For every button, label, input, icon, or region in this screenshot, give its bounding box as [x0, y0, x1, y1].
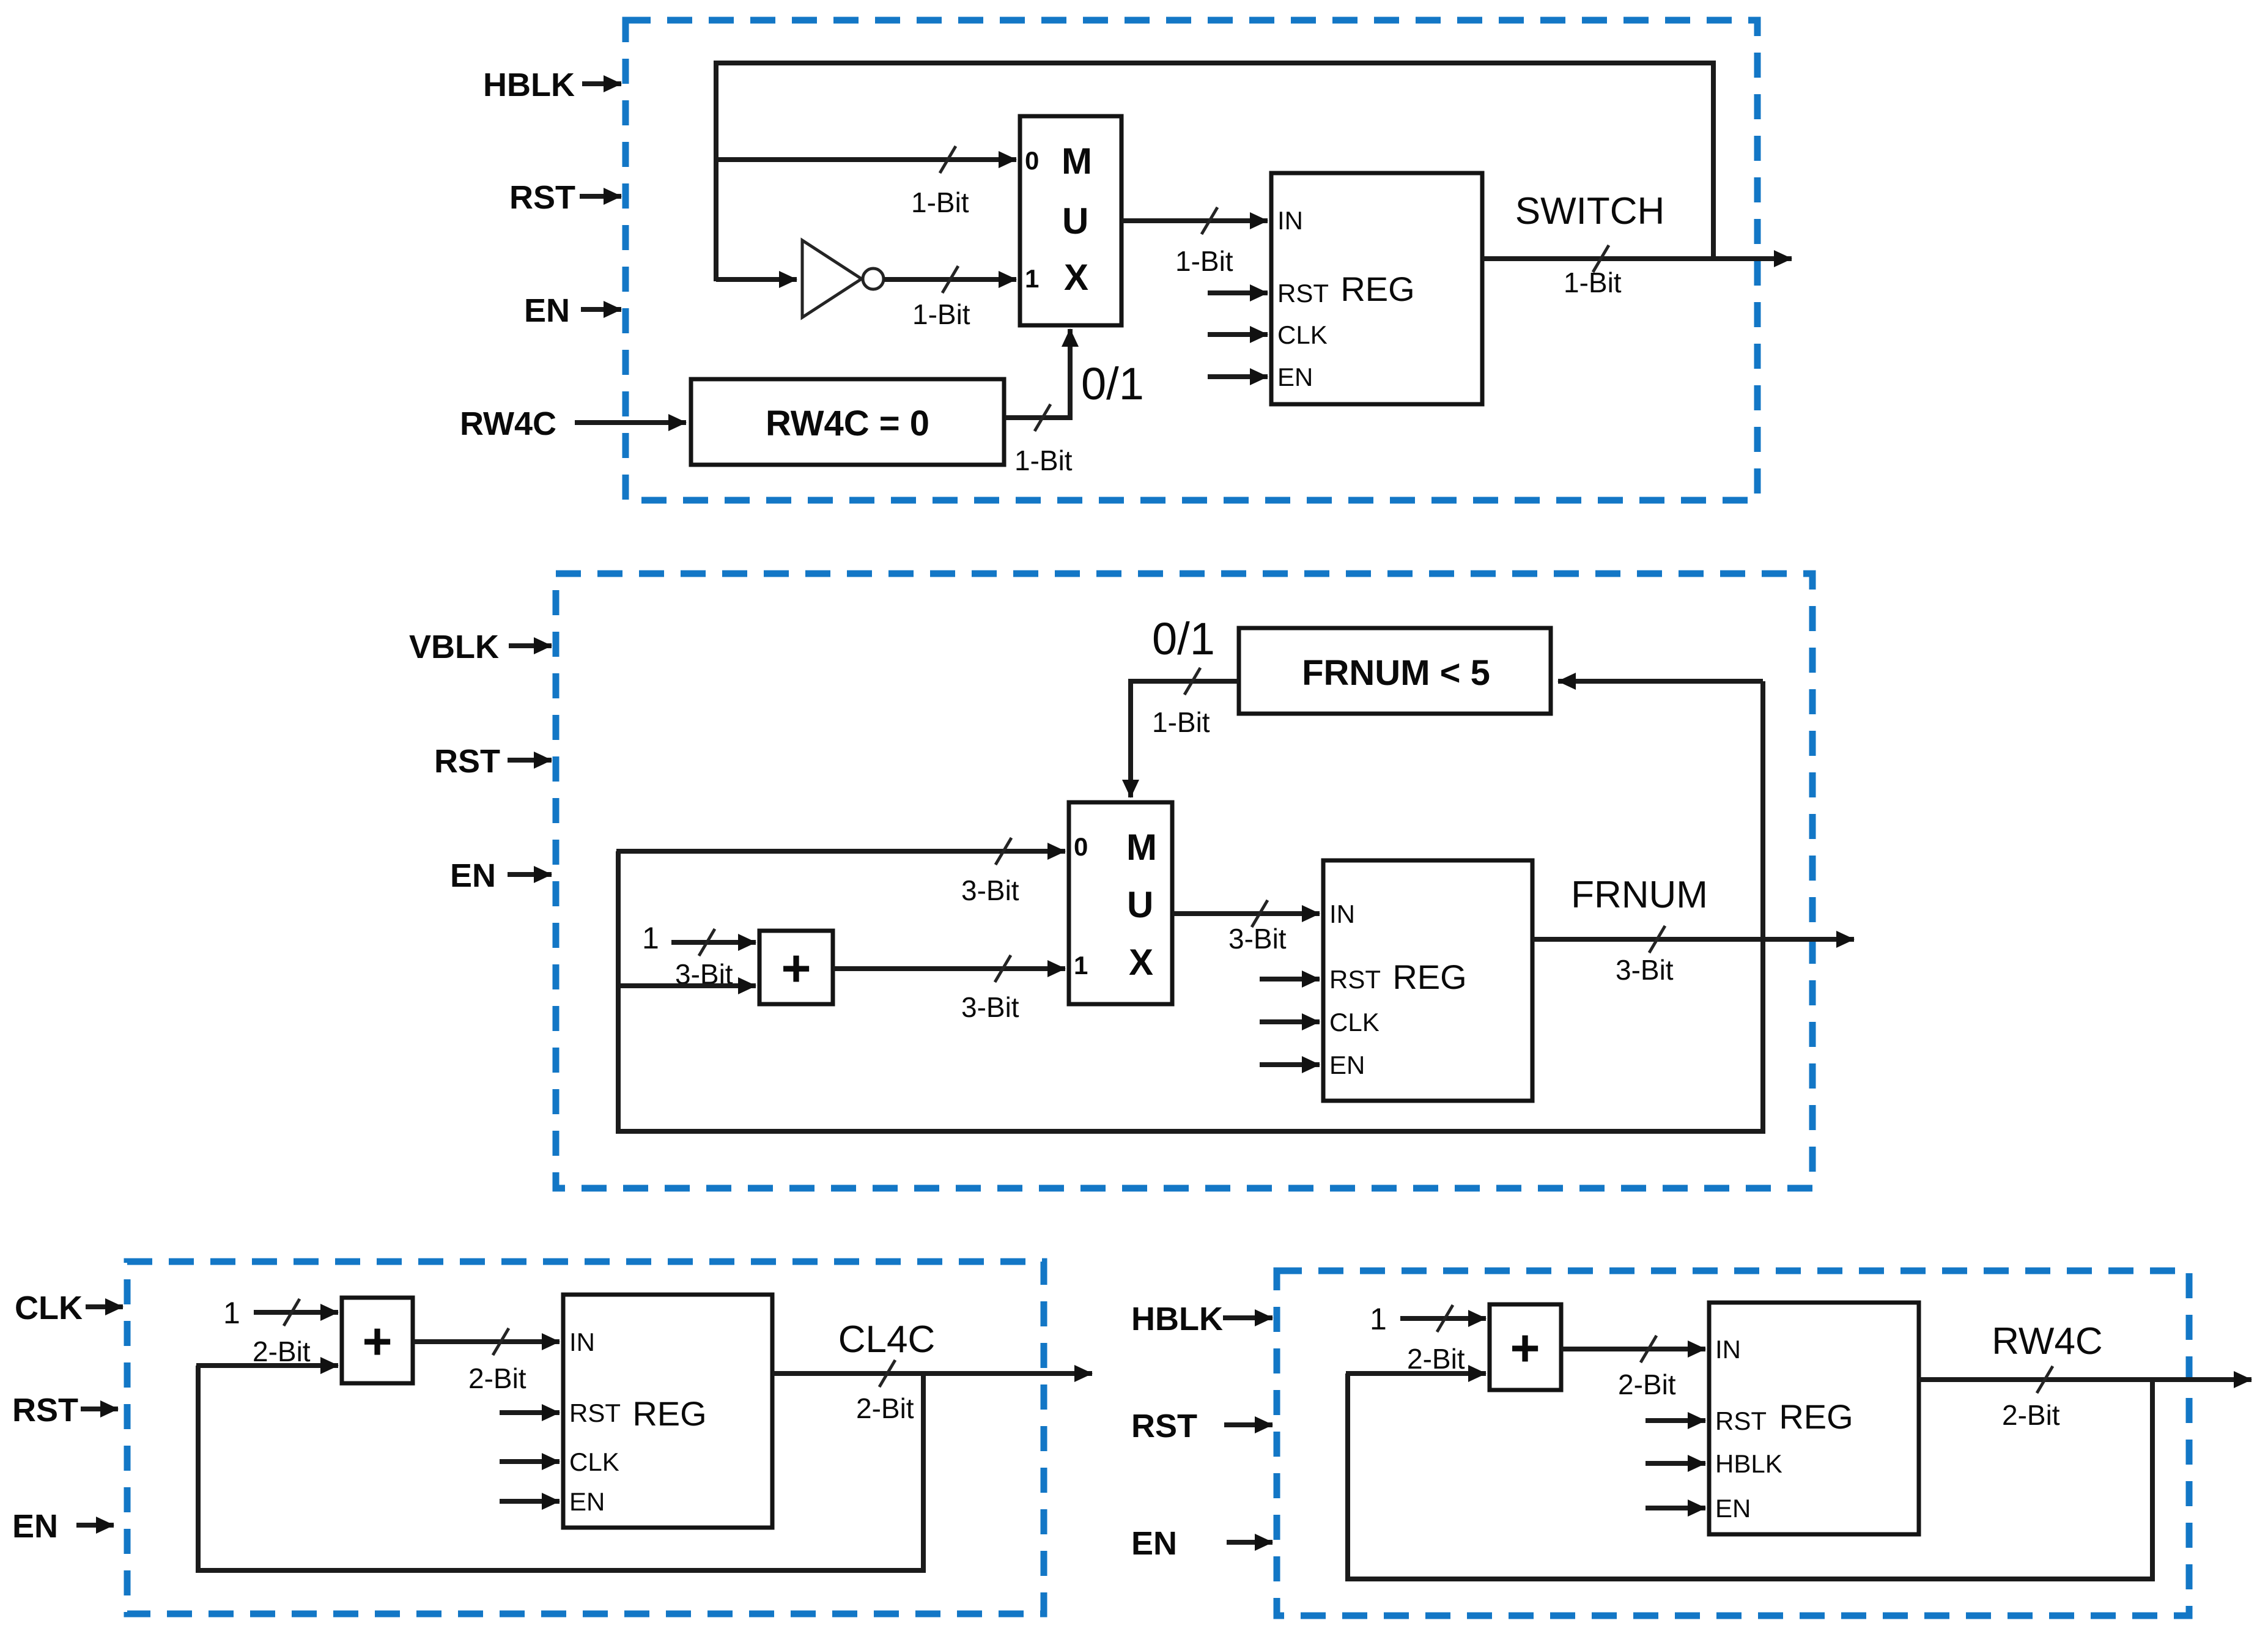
- wire RST input arrow: [580, 194, 621, 199]
- svg-text:3-Bit: 3-Bit: [961, 874, 1019, 906]
- svg-text:1-Bit: 1-Bit: [1564, 267, 1622, 298]
- bus width label 2-Bit: [856, 1392, 914, 1424]
- svg-text:0/1: 0/1: [1152, 613, 1215, 664]
- wire inverter to MUX input 1: [884, 277, 1016, 282]
- svg-text:RST: RST: [434, 743, 500, 780]
- bus width label 1-Bit: [1564, 267, 1622, 298]
- svg-text:M: M: [1062, 141, 1092, 182]
- wire FRNUM feedback into comparator (right side): [1558, 679, 1763, 684]
- svg-text:SWITCH: SWITCH: [1515, 190, 1665, 232]
- svg-text:1-Bit: 1-Bit: [1152, 706, 1210, 738]
- svg-text:FRNUM: FRNUM: [1571, 874, 1708, 916]
- svg-text:RST: RST: [12, 1392, 78, 1429]
- inverter NOT gate: [802, 240, 884, 317]
- svg-text:FRNUM < 5: FRNUM < 5: [1302, 653, 1490, 693]
- wire HBLK feedback loop (up over to output junction): [716, 63, 1713, 281]
- svg-text:IN: IN: [569, 1328, 595, 1356]
- svg-text:+: +: [781, 939, 811, 997]
- wire into inverter: [716, 277, 797, 282]
- svg-text:CLK: CLK: [569, 1447, 619, 1476]
- wire MUX output to REG IN: [1172, 911, 1320, 916]
- pin arrow EN: [500, 1499, 560, 1504]
- bus width label 1-Bit: [911, 187, 969, 218]
- output wire RW4C: [1919, 1377, 2251, 1382]
- svg-text:2-Bit: 2-Bit: [253, 1336, 311, 1367]
- svg-text:1: 1: [223, 1296, 240, 1330]
- constant 1 label: [642, 921, 659, 955]
- wire constant 1 into adder: [254, 1310, 338, 1315]
- svg-text:3-Bit: 3-Bit: [961, 991, 1019, 1023]
- pin arrow HBLK: [1646, 1461, 1705, 1466]
- register REG (bottom left): [563, 1295, 772, 1528]
- wire EN input arrow: [508, 872, 552, 877]
- pin arrow CLK: [500, 1459, 560, 1464]
- svg-text:HBLK: HBLK: [483, 67, 575, 103]
- wire MUX output to REG IN: [1121, 218, 1268, 223]
- wire comparator output down into MUX select: [1131, 681, 1239, 797]
- constant 1 label: [223, 1296, 240, 1330]
- bus slash 3-bit (mux in 1): [995, 955, 1011, 982]
- bus slash 2-bit (rw4c out): [2037, 1366, 2053, 1393]
- wire feedback into adder input B: [1346, 1371, 1486, 1376]
- adder: [759, 931, 833, 1004]
- pin arrow CLK: [1208, 332, 1268, 337]
- feedback loop wire (RW4C back to adder): [1348, 1373, 2152, 1579]
- bus width label 3-Bit: [1616, 954, 1674, 986]
- wire CLK input arrow: [86, 1304, 123, 1309]
- bus slash 2-bit (adder in A): [1437, 1305, 1453, 1332]
- bus width label 3-Bit: [961, 874, 1019, 906]
- bus width label 2-Bit: [2002, 1399, 2060, 1431]
- wire feedback into adder input B: [196, 1363, 338, 1368]
- wire EN input arrow: [1227, 1540, 1273, 1545]
- wire adder to REG IN: [1561, 1347, 1705, 1351]
- wire RST input arrow: [81, 1407, 118, 1411]
- wire HBLK input arrow: [582, 81, 621, 86]
- output label CL4C: [838, 1318, 936, 1361]
- svg-text:RW4C = 0: RW4C = 0: [766, 404, 929, 443]
- wire feedback to MUX input 0: [616, 849, 1065, 854]
- pin arrow RST: [1208, 290, 1268, 295]
- wire adder to MUX input 1: [833, 966, 1065, 971]
- svg-text:1-Bit: 1-Bit: [1175, 245, 1233, 277]
- input label EN: [450, 857, 496, 894]
- bus slash 1-bit (mux in 1): [942, 266, 958, 293]
- wire constant 1 into adder: [671, 940, 756, 945]
- bus slash 1-bit (select): [1035, 404, 1051, 431]
- input label EN: [12, 1508, 58, 1545]
- bus slash 2-bit (reg in): [493, 1328, 509, 1355]
- svg-text:X: X: [1129, 942, 1153, 983]
- bus width label 1-Bit: [1014, 445, 1073, 476]
- svg-text:0: 0: [1074, 832, 1088, 861]
- svg-text:EN: EN: [12, 1508, 58, 1545]
- register REG (bottom right): [1709, 1303, 1919, 1534]
- bus slash 1-bit (switch out): [1593, 245, 1609, 272]
- svg-text:X: X: [1064, 257, 1088, 298]
- svg-text:HBLK: HBLK: [1715, 1449, 1782, 1478]
- output label FRNUM: [1571, 874, 1708, 916]
- svg-text:2-Bit: 2-Bit: [856, 1392, 914, 1424]
- wire HBLK to MUX input 0: [714, 157, 1016, 162]
- bus width label 2-Bit: [1618, 1369, 1676, 1400]
- wire HBLK input arrow: [1223, 1315, 1273, 1320]
- bus slash 1-bit (reg in): [1202, 207, 1217, 234]
- bus slash 1-bit (mux in 0): [940, 146, 956, 173]
- svg-text:EN: EN: [450, 857, 496, 894]
- svg-text:3-Bit: 3-Bit: [1228, 923, 1287, 955]
- wire comparator to MUX select: [1005, 329, 1070, 418]
- svg-text:1: 1: [1370, 1302, 1387, 1336]
- bus width label 1-Bit: [912, 298, 970, 330]
- select value label 0/1: [1081, 358, 1144, 409]
- wire adder to REG IN: [413, 1339, 560, 1344]
- svg-text:RST: RST: [569, 1399, 621, 1427]
- bus slash 3-bit (mux in 0): [995, 838, 1011, 865]
- svg-text:EN: EN: [1131, 1525, 1177, 1562]
- dashed module boundary (FRNUM block): [556, 574, 1812, 1188]
- svg-text:EN: EN: [1329, 1051, 1365, 1079]
- svg-text:VBLK: VBLK: [409, 629, 499, 665]
- comparator FRNUM < 5: [1239, 628, 1551, 714]
- svg-text:1: 1: [642, 921, 659, 955]
- svg-text:3-Bit: 3-Bit: [1616, 954, 1674, 986]
- input label EN: [1131, 1525, 1177, 1562]
- pin arrow RST: [500, 1410, 560, 1415]
- input label HBLK: [483, 67, 575, 103]
- input label VBLK: [409, 629, 499, 665]
- input label RST: [434, 743, 500, 780]
- bus width label 1-Bit: [1152, 706, 1210, 738]
- output label SWITCH: [1515, 190, 1665, 232]
- bus width label 1-Bit: [1175, 245, 1233, 277]
- bus width label 2-Bit: [253, 1336, 311, 1367]
- pin arrow CLK: [1260, 1019, 1320, 1024]
- svg-text:1-Bit: 1-Bit: [1014, 445, 1073, 476]
- dashed module boundary (RW4C block): [1277, 1271, 2189, 1616]
- svg-text:0: 0: [1025, 146, 1039, 175]
- select value label 0/1: [1152, 613, 1215, 664]
- wire constant 1 into adder: [1400, 1316, 1486, 1321]
- bus width label 3-Bit: [1228, 923, 1287, 955]
- wire RST input arrow: [1224, 1422, 1273, 1427]
- bus slash 2-bit (cl4c out): [879, 1360, 895, 1387]
- wire RST input arrow: [508, 758, 552, 763]
- pin arrow RST: [1646, 1418, 1705, 1423]
- output label RW4C: [1992, 1320, 2102, 1362]
- mux MUX2: [1069, 802, 1172, 1004]
- svg-text:M: M: [1126, 827, 1157, 868]
- pin arrow RST: [1260, 977, 1320, 982]
- svg-text:RST: RST: [1131, 1408, 1197, 1444]
- wire VBLK input arrow: [509, 643, 552, 648]
- bus slash 2-bit (adder in A): [284, 1299, 300, 1326]
- bus width label 3-Bit: [675, 958, 733, 990]
- svg-text:RST: RST: [1277, 279, 1329, 308]
- input label RST: [509, 179, 575, 216]
- pin arrow EN: [1646, 1506, 1705, 1510]
- bus slash 3-bit (frnum out): [1649, 926, 1665, 953]
- bus slash 3-bit (adder in A): [699, 929, 715, 956]
- svg-text:+: +: [1510, 1319, 1540, 1377]
- svg-text:IN: IN: [1329, 900, 1355, 928]
- bus width label 2-Bit: [468, 1362, 526, 1394]
- dashed module boundary (CL4C block): [127, 1262, 1044, 1614]
- svg-text:IN: IN: [1715, 1335, 1741, 1364]
- feedback loop wire (CL4C back to adder): [198, 1366, 923, 1570]
- pin arrow EN: [1260, 1062, 1320, 1067]
- output wire CL4C: [772, 1371, 1092, 1376]
- svg-text:1-Bit: 1-Bit: [912, 298, 970, 330]
- svg-text:2-Bit: 2-Bit: [1407, 1343, 1465, 1375]
- bus slash 2-bit (reg in): [1641, 1336, 1657, 1362]
- bus width label 3-Bit: [961, 991, 1019, 1023]
- wire RW4C input arrow into comparator: [575, 420, 686, 425]
- svg-text:RST: RST: [1715, 1407, 1767, 1435]
- svg-text:0/1: 0/1: [1081, 358, 1144, 409]
- svg-text:RST: RST: [509, 179, 575, 216]
- feedback loop wire (FRNUM back to mux/adder): [618, 681, 1763, 1131]
- svg-text:CLK: CLK: [1329, 1008, 1380, 1037]
- svg-text:RST: RST: [1329, 965, 1381, 994]
- svg-text:EN: EN: [1715, 1494, 1751, 1523]
- svg-text:CL4C: CL4C: [838, 1318, 936, 1361]
- constant 1 label: [1370, 1302, 1387, 1336]
- adder: [342, 1298, 413, 1383]
- input label HBLK: [1131, 1301, 1223, 1337]
- svg-text:IN: IN: [1277, 206, 1303, 235]
- wire feedback into adder input B: [616, 983, 756, 988]
- wire EN input arrow: [581, 307, 621, 312]
- wire EN input arrow: [76, 1523, 114, 1528]
- register REG (top): [1271, 173, 1482, 404]
- input label EN: [524, 292, 570, 329]
- svg-text:REG: REG: [1340, 270, 1414, 308]
- output wire SWITCH: [1482, 256, 1792, 261]
- input label CLK: [15, 1290, 83, 1326]
- register REG (middle): [1323, 860, 1532, 1101]
- svg-text:U: U: [1127, 884, 1153, 925]
- input label RW4C: [460, 405, 556, 442]
- input label RST: [1131, 1408, 1197, 1444]
- comparator RW4C = 0: [691, 379, 1004, 465]
- bus slash 3-bit (reg in): [1252, 900, 1268, 927]
- pin arrow EN: [1208, 374, 1268, 379]
- svg-text:REG: REG: [1392, 958, 1466, 996]
- dashed module boundary (SWITCH block): [626, 20, 1757, 500]
- svg-text:RW4C: RW4C: [1992, 1320, 2102, 1362]
- svg-text:RW4C: RW4C: [460, 405, 556, 442]
- svg-text:2-Bit: 2-Bit: [2002, 1399, 2060, 1431]
- mux MUX1: [1020, 116, 1121, 325]
- svg-text:+: +: [362, 1312, 392, 1370]
- svg-text:1-Bit: 1-Bit: [911, 187, 969, 218]
- svg-text:EN: EN: [569, 1487, 605, 1516]
- svg-text:REG: REG: [632, 1394, 706, 1433]
- svg-text:EN: EN: [1277, 363, 1313, 391]
- svg-text:U: U: [1062, 201, 1088, 242]
- svg-text:1: 1: [1074, 951, 1088, 980]
- svg-text:CLK: CLK: [15, 1290, 83, 1326]
- svg-text:2-Bit: 2-Bit: [1618, 1369, 1676, 1400]
- svg-text:2-Bit: 2-Bit: [468, 1362, 526, 1394]
- svg-text:1: 1: [1025, 264, 1039, 293]
- svg-text:REG: REG: [1779, 1397, 1853, 1436]
- svg-text:HBLK: HBLK: [1131, 1301, 1223, 1337]
- svg-text:EN: EN: [524, 292, 570, 329]
- adder: [1490, 1304, 1561, 1390]
- svg-text:CLK: CLK: [1277, 320, 1328, 349]
- input label RST: [12, 1392, 78, 1429]
- output wire FRNUM: [1532, 937, 1854, 942]
- bus width label 2-Bit: [1407, 1343, 1465, 1375]
- bus slash 1-bit (select): [1184, 668, 1200, 695]
